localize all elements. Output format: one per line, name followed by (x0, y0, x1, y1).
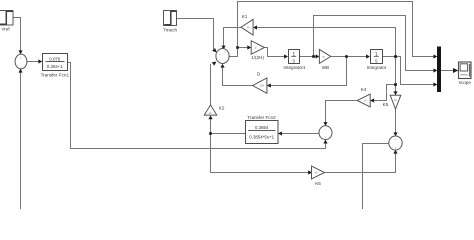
svg-text:Integrator: Integrator (367, 65, 387, 70)
transfer fcn TF1 (Transfer Fcn1) (41, 54, 70, 78)
step block Tmech (163, 11, 177, 33)
arrow into sum0 bottom (18, 69, 22, 73)
arrow into mux in2 (433, 68, 437, 72)
svg-text:-K-: -K- (363, 99, 367, 103)
svg-text:Vref: Vref (1, 26, 10, 31)
arrow into K5 top (393, 91, 397, 95)
wire K2 out to sum1 lower-left (210, 64, 212, 105)
arrow into sum1 bottom (220, 64, 224, 68)
sum2 (Vt sum) (389, 136, 402, 150)
wire sum1 out to 1/(2H) (229, 48, 248, 57)
wire Tmech to sum1 upper-left (177, 19, 214, 50)
junction dot delta main line (394, 55, 397, 58)
sum1 torque summing junction (216, 49, 229, 64)
integrator block (367, 50, 387, 71)
svg-text:0.8: 0.8 (260, 84, 264, 88)
arrow into D input (267, 83, 271, 87)
gain 1/(2H) (right pointing) (251, 41, 264, 60)
sum3 (field voltage sum) (319, 126, 332, 140)
gain K2 (up pointing) (204, 105, 225, 115)
wire w branch up over to mux in2 (314, 16, 435, 71)
svg-text:0.3854: 0.3854 (255, 125, 269, 130)
wire TF2 branch down to K6 input (211, 134, 309, 173)
arrow into sum0 top (18, 50, 22, 54)
svg-text:K5: K5 (383, 102, 389, 107)
arrow into TF2 right (flipped block) (278, 131, 282, 135)
arrow into K2 base (208, 115, 212, 119)
step block Vref (0, 11, 13, 32)
wire sum1 branch top line to mux in1 (238, 2, 435, 57)
svg-text:1/(2H): 1/(2H) (251, 55, 264, 60)
arrow into sum1 upper-left (212, 48, 217, 52)
junction dot WB out / D branch (345, 55, 348, 58)
arrow into sum2 top (393, 132, 397, 136)
wire Integrator1 out to WB (299, 56, 316, 58)
svg-text:Tmech: Tmech (163, 27, 177, 32)
arrow into sum1 top (221, 46, 225, 50)
wire sum0 out to TF1 (27, 61, 39, 63)
gain K5 (down pointing) (383, 95, 401, 109)
arrow into sum3 top (323, 122, 327, 126)
svg-text:-K-: -K- (209, 111, 213, 115)
wire WB out to Integrator (331, 56, 367, 58)
arrow into sum2 bottom (393, 150, 397, 154)
svg-text:K1: K1 (242, 14, 248, 19)
junction dot sum1 output branch (236, 46, 239, 49)
sum0 (Vref - Vt) (15, 54, 27, 69)
svg-text:K6: K6 (315, 181, 321, 186)
svg-text:1/: 1/ (255, 46, 258, 50)
wire 1/(2H) out to Integrator1 (265, 48, 285, 57)
gain K4 (left pointing) (357, 87, 370, 107)
arrow into K6 input (308, 170, 312, 174)
wire sum2 out to off-screen bottom (363, 144, 389, 210)
wire K1 out to sum1 top (224, 28, 242, 46)
junction dot TF2 out branch (209, 132, 212, 135)
scope block (459, 62, 472, 85)
arrow into K4 input (370, 98, 374, 102)
svg-text:Integrator1: Integrator1 (283, 65, 306, 70)
wire w branch down to D input (270, 57, 346, 86)
arrow into K1 input (253, 25, 257, 29)
junction dot w branch at Integrator1 out (312, 55, 315, 58)
arrow into mux in1 (433, 54, 437, 58)
wire sum0 bottom feedback from off-screen bottom (20, 72, 22, 209)
svg-text:-K-: -K- (394, 98, 398, 102)
wire delta branch up to K1 input (256, 28, 395, 57)
wire Integrator out (delta) jog to mux in3 (383, 57, 435, 85)
arrow into 1/(2H) (247, 45, 251, 49)
svg-text:-K-: -K- (314, 171, 318, 175)
svg-text:K2: K2 (219, 105, 225, 110)
gain D (left pointing) (253, 72, 267, 94)
wire sum3 out to TF2 input (281, 133, 319, 135)
gain WB (right pointing) (319, 49, 330, 70)
wire delta branch down to K5 (395, 57, 397, 93)
svg-text:1: 1 (375, 52, 378, 58)
junction dot delta lower K4/K5 (394, 83, 397, 86)
arrow into Integrator1 (284, 54, 288, 58)
wire D out to sum1 bottom (223, 68, 253, 86)
transfer fcn TF2 (Transfer Fcn2, flipped) (246, 115, 279, 143)
wire K5 out to sum2 top (395, 109, 397, 133)
svg-text:0.076: 0.076 (49, 56, 61, 61)
svg-text:Transfer Fcn2: Transfer Fcn2 (247, 115, 276, 120)
svg-text:0.3854*5s+1: 0.3854*5s+1 (249, 135, 274, 140)
wire K4 out to sum3 top (326, 101, 358, 123)
arrow into WB (316, 54, 320, 58)
svg-text:WB: WB (322, 65, 329, 70)
svg-text:scope: scope (459, 80, 472, 85)
svg-text:-K-: -K- (247, 25, 251, 29)
wire TF1 out long path to sum3 bottom (67, 63, 325, 149)
arrow into Integrator (366, 54, 370, 58)
gain K1 (left pointing) (241, 14, 253, 35)
gain K6 (right pointing) (312, 166, 325, 186)
arrow into mux in3 (433, 82, 437, 86)
wire delta branch to K4 input (374, 85, 396, 101)
svg-text:0.25s+1: 0.25s+1 (47, 64, 63, 69)
arrow into scope (453, 68, 458, 73)
wire Vref to sum0 top (13, 18, 21, 51)
svg-text:Transfer Fcn1: Transfer Fcn1 (41, 72, 70, 77)
integrator1 block (283, 50, 306, 71)
wire mux out to scope (441, 70, 453, 72)
wire TF2 out to K2 input (211, 119, 246, 133)
wire K6 out to sum2 bottom (325, 153, 396, 172)
arrow into sum3 bottom (323, 140, 327, 144)
arrow into sum1 lower-left (212, 62, 217, 66)
arrow into TF1 (38, 59, 42, 63)
svg-text:K4: K4 (361, 87, 367, 92)
mux (437, 47, 441, 93)
svg-text:1: 1 (292, 52, 295, 58)
